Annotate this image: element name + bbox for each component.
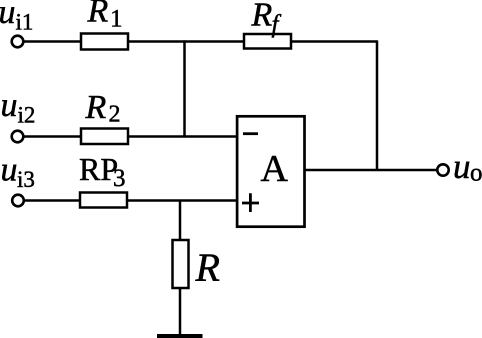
- wire feedback vertical: [376, 40, 379, 170]
- node junction J2 (wire down to R): [179, 201, 182, 241]
- ground: [157, 334, 203, 338]
- label Rf: [251, 0, 282, 38]
- resistor R1: [81, 34, 128, 50]
- op-amp U1 box: [237, 116, 304, 226]
- svg-text:u: u: [1, 87, 18, 124]
- svg-text:3: 3: [113, 165, 126, 192]
- wire input2 to R2: [23, 135, 81, 138]
- wire RP3 to noninverting input: [127, 199, 238, 202]
- svg-text:R: R: [85, 89, 107, 126]
- label R2: [85, 89, 121, 128]
- svg-text:2: 2: [109, 102, 121, 128]
- svg-text:i3: i3: [17, 167, 35, 192]
- wire Rf to feedback corner: [291, 40, 377, 43]
- svg-text:u: u: [0, 0, 16, 31]
- wire input3 to RP3: [24, 199, 80, 202]
- label RP3: [79, 151, 126, 192]
- svg-text:i1: i1: [16, 10, 34, 35]
- op-amp inverting input marker (minus): [243, 132, 258, 135]
- resistor R: [173, 240, 189, 288]
- resistor Rf: [244, 34, 291, 49]
- svg-text:R: R: [87, 0, 109, 30]
- wire R2 to inverting input: [128, 135, 238, 138]
- wire R1 to Rf: [128, 40, 244, 43]
- label A (op-amp gain): [261, 148, 289, 190]
- label u_o: [453, 147, 482, 187]
- svg-text:R: R: [195, 245, 220, 290]
- op-amp noninverting input marker (plus): [242, 193, 259, 212]
- resistor R2: [81, 129, 128, 145]
- svg-text:A: A: [261, 148, 289, 190]
- svg-text:R: R: [251, 0, 273, 34]
- node junction J1 (inverting summing node): [183, 40, 186, 137]
- terminal u_i1: [12, 36, 24, 48]
- label R: [195, 245, 220, 290]
- wire R to ground: [179, 288, 182, 334]
- wire op-amp output: [304, 169, 437, 172]
- label u_i3: [1, 152, 35, 193]
- label u_i1: [0, 0, 33, 35]
- wire input1 to R1: [23, 40, 81, 43]
- resistor RP3: [80, 193, 127, 208]
- svg-text:o: o: [470, 160, 482, 187]
- svg-text:u: u: [453, 147, 471, 186]
- terminal u_i2: [12, 131, 24, 143]
- label R1: [87, 0, 123, 33]
- svg-text:1: 1: [110, 6, 123, 33]
- svg-text:u: u: [1, 152, 18, 189]
- label u_i2: [1, 87, 36, 128]
- terminal u_o: [437, 164, 448, 175]
- terminal u_i3: [12, 195, 24, 207]
- svg-text:i2: i2: [18, 103, 36, 128]
